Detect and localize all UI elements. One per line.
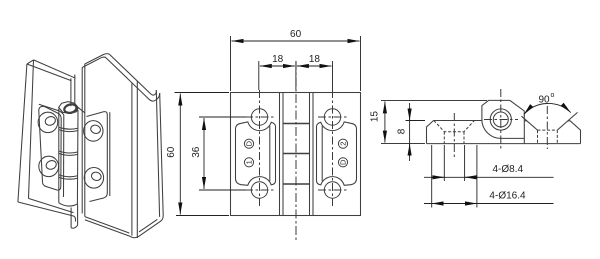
left pad (bone shape) [236, 122, 276, 185]
svg-text:2: 2 [339, 142, 348, 146]
hidden (dashed) countersink left plate [434, 121, 558, 144]
svg-text:4-Ø8.4: 4-Ø8.4 [493, 164, 524, 175]
screw hole bottom-left [251, 182, 267, 198]
ext 8.4 left [443, 145, 445, 181]
ext line top-left [230, 36, 232, 91]
dim line 15 [384, 101, 386, 142]
right pad (bone shape) [317, 122, 357, 185]
svg-text:90: 90 [538, 95, 550, 106]
right leaf left edge second [84, 64, 86, 217]
near corner vertical outer [131, 83, 133, 236]
hole cross top-right [318, 116, 347, 118]
pin centerline vertical [295, 61, 297, 241]
hidden hole right plate [537, 130, 539, 144]
knuckle divider 3 [283, 183, 310, 185]
left panel top corner connector [27, 60, 34, 64]
svg-text:60: 60 [166, 146, 177, 158]
8 arrow top (outside pointing down) [409, 108, 411, 121]
ext 15 top (knuckle top) [381, 99, 487, 101]
svg-text:4-Ø16.4: 4-Ø16.4 [489, 191, 526, 202]
knuckle segment divider 2 [59, 151, 78, 155]
svg-text:D: D [339, 159, 348, 165]
right pad inner strip line [321, 126, 323, 181]
pin hole outer [490, 109, 511, 130]
knuckle segment divider 1 [59, 127, 78, 131]
ext 18 left [258, 61, 260, 90]
pin hole inner [493, 112, 508, 127]
left leaf cut edge [279, 93, 281, 216]
dim line 4-O16.4 [424, 203, 554, 205]
ext 18 right [332, 61, 334, 90]
left panel bottom edge [18, 202, 76, 222]
ext 8 top [406, 120, 426, 122]
ext 36 top [199, 116, 246, 118]
90 deg arc [524, 103, 571, 114]
hole left-lower countersink [39, 156, 59, 176]
8 arrow bottom (outside pointing up) [409, 144, 411, 157]
dim line 8 vertical [409, 103, 411, 161]
svg-text:o: o [551, 92, 555, 99]
right plate outline [524, 121, 580, 144]
right V countersink solid slopes [522, 112, 578, 130]
ext 16.4 right [476, 145, 478, 208]
left plate outline [427, 121, 581, 144]
left leaf bottom edge [28, 198, 73, 212]
hole right-lower bore [91, 171, 103, 181]
right leaf bottom edge [85, 217, 130, 234]
right leaf wrap line behind knuckle [75, 105, 85, 113]
hole left-upper countersink [38, 112, 58, 132]
dim line 18 left [260, 65, 295, 67]
left pad inner strip line [269, 126, 271, 181]
left panel left edge [18, 64, 27, 202]
ext 18 mid [295, 61, 297, 90]
screw hole top-left [251, 109, 267, 125]
knuckle barrel right edge [309, 93, 311, 216]
right flange outer edge [85, 93, 163, 238]
hole column centerline right [332, 90, 334, 206]
dim line 60 left [179, 94, 181, 215]
right leaf cut edge [312, 93, 314, 216]
hole right-upper countersink [84, 121, 103, 142]
knuckle divider 2 [283, 153, 310, 155]
8.4 arrow right [465, 176, 478, 178]
svg-text:15: 15 [370, 111, 381, 123]
svg-text:18: 18 [272, 54, 284, 65]
ext 15/8 bottom [381, 143, 425, 145]
right leaf pad outline [87, 112, 108, 202]
svg-text:8: 8 [397, 128, 408, 134]
ext 8.4 right [464, 145, 466, 181]
knuckle barrel left edge [282, 93, 284, 216]
centerlines side view [454, 89, 547, 157]
right leaf pad right band [109, 112, 111, 196]
knuckle bottom arc [59, 203, 78, 206]
left leaf left edge [29, 60, 34, 198]
16.4 arrow right [464, 203, 477, 205]
right leaf top band lower [82, 57, 160, 101]
knuckle bottom-left arc [482, 120, 524, 139]
near corner vertical inner [136, 81, 138, 238]
right group inner bottom line right [139, 219, 157, 232]
screw hole top-right [324, 109, 340, 125]
knuckle lower collar [71, 204, 78, 228]
knuckle cylinder right edge [76, 110, 79, 204]
dim line 4-O8.4 [424, 176, 554, 178]
dim line 18 right [297, 65, 332, 67]
left leaf pad band line [39, 104, 64, 115]
hole cross bottom-right [318, 189, 347, 191]
left leaf top edge inner [34, 60, 76, 78]
body outline [231, 93, 361, 216]
right leaf top band upper [85, 54, 157, 96]
ext 60 left bottom [176, 215, 229, 217]
left leaf pad outline [39, 106, 61, 190]
svg-text:D: D [245, 140, 254, 146]
screw hole bottom-right [324, 182, 340, 198]
ext 16.4 left [431, 145, 433, 208]
left panel top edge outer [27, 64, 72, 81]
knuckle cylinder left edge [58, 109, 60, 203]
knuckle outline [482, 100, 524, 143]
16.4 arrow left [432, 203, 445, 205]
svg-text:36: 36 [191, 146, 202, 158]
dim line 36 [203, 118, 205, 189]
dim line 60 top [232, 40, 360, 42]
knuckle divider 1 [283, 123, 310, 125]
svg-text:18: 18 [309, 54, 321, 65]
ext line top-right [360, 36, 362, 91]
centerlines front view [245, 61, 347, 241]
hole right-lower countersink [84, 168, 103, 189]
knuckle pin hole [63, 103, 77, 114]
8.4 arrow left [431, 176, 444, 178]
hole right-upper bore [90, 124, 102, 134]
left panel right-end edge far [74, 75, 76, 105]
right leaf left edge [81, 68, 83, 214]
knuckle segment divider 3 [59, 175, 78, 179]
ext 36 bottom [199, 189, 246, 191]
marker circle D left [244, 139, 347, 167]
left panel right-end edge near [70, 78, 72, 106]
right flange inner edge [156, 90, 159, 217]
left leaf pad band edge right [63, 115, 65, 197]
svg-text:1: 1 [245, 160, 254, 164]
svg-text:60: 60 [290, 29, 302, 40]
hole left-lower bore [45, 159, 58, 170]
knuckle top face [59, 102, 79, 114]
hole left-upper bore [44, 115, 57, 126]
hole cross bottom-left [245, 189, 274, 191]
hole column centerline left [259, 90, 261, 206]
hole cross top-left [245, 116, 274, 118]
ext 60 left top [175, 92, 230, 94]
